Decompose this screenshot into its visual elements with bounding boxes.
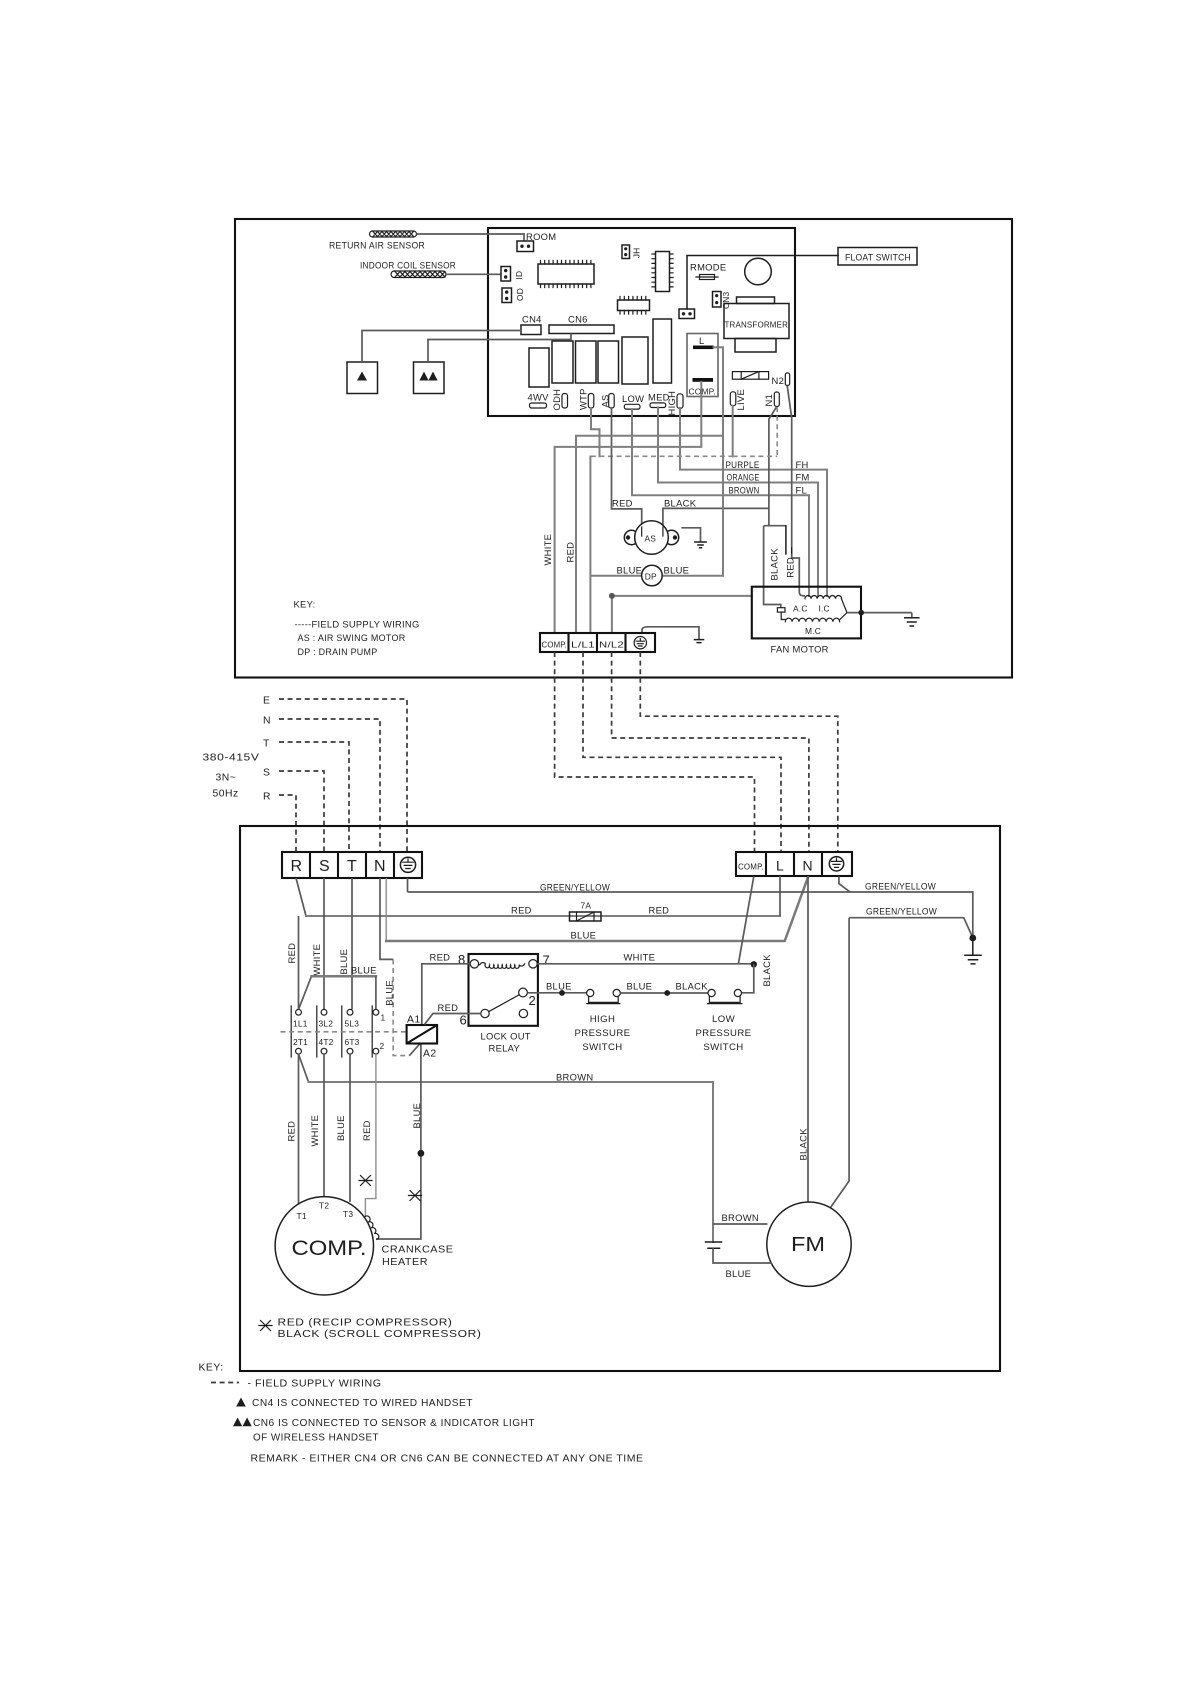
wire fan motor to ground bbox=[847, 613, 912, 618]
svg-text:RED: RED bbox=[649, 905, 670, 916]
svg-text:- FIELD SUPPLY WIRING: - FIELD SUPPLY WIRING bbox=[248, 1379, 382, 1390]
pin ODH bbox=[562, 394, 568, 409]
svg-text:RED: RED bbox=[565, 542, 576, 563]
svg-text:LOW: LOW bbox=[712, 1014, 736, 1025]
svg-text:AS: AS bbox=[645, 534, 657, 544]
pin LIVE bbox=[730, 392, 736, 406]
OD connector bbox=[502, 288, 512, 303]
svg-text:DP : DRAIN PUMP: DP : DRAIN PUMP bbox=[298, 646, 378, 657]
svg-text:3L2: 3L2 bbox=[319, 1019, 334, 1029]
dashed drain pump wire at N1 bbox=[733, 407, 778, 456]
svg-text:BLUE: BLUE bbox=[726, 1268, 752, 1279]
pin LOW bbox=[624, 404, 640, 409]
svg-text:FM: FM bbox=[791, 1234, 825, 1256]
junction node white-black bbox=[751, 961, 757, 967]
dashed BLUE wire N to contactor coil A2 bbox=[393, 959, 409, 1055]
wire N terminal down bbox=[380, 878, 393, 959]
wire slant to COMP terminal bbox=[738, 876, 754, 964]
contactor main contacts bbox=[291, 1006, 379, 1057]
svg-text:1: 1 bbox=[381, 1013, 386, 1023]
svg-text:CN4: CN4 bbox=[522, 314, 542, 325]
svg-text:L/L1: L/L1 bbox=[571, 640, 595, 650]
wire T terminal to contactor 5L3 bbox=[351, 878, 353, 1010]
low pressure switch bbox=[708, 989, 742, 1003]
svg-text:8: 8 bbox=[458, 952, 465, 967]
wire drain pump left BLUE to N/L2 bbox=[590, 457, 642, 634]
svg-text:KEY:: KEY: bbox=[199, 1363, 224, 1374]
svg-text:BROWN: BROWN bbox=[722, 1212, 759, 1223]
svg-text:T2: T2 bbox=[319, 1201, 329, 1211]
svg-text:BLUE: BLUE bbox=[351, 965, 377, 976]
CN4 connector bbox=[521, 325, 541, 335]
indoor coil sensor coil bbox=[391, 271, 446, 278]
fan run capacitor bbox=[706, 1242, 722, 1248]
wire S terminal to contactor 3L2 bbox=[323, 878, 325, 1010]
svg-text:BLUE: BLUE bbox=[627, 981, 653, 992]
fan motor common to MC bbox=[781, 612, 785, 619]
svg-text:FM: FM bbox=[796, 472, 810, 483]
svg-text:BLUE: BLUE bbox=[617, 565, 643, 576]
wire N2 to capacitor bbox=[787, 386, 792, 548]
fuse 7A bbox=[570, 901, 602, 922]
buzzer circle bbox=[745, 258, 772, 285]
svg-text:PURPLE: PURPLE bbox=[726, 459, 760, 470]
svg-text:HIGH: HIGH bbox=[590, 1014, 616, 1025]
CN6 connector bbox=[549, 325, 614, 334]
svg-text:DP: DP bbox=[645, 572, 657, 582]
ground symbol outdoor bbox=[965, 938, 981, 964]
svg-text:AS: AS bbox=[600, 394, 611, 407]
svg-text:GREEN/YELLOW: GREEN/YELLOW bbox=[540, 882, 610, 893]
svg-text:OD: OD bbox=[515, 288, 525, 301]
svg-text:RELAY: RELAY bbox=[489, 1043, 521, 1054]
svg-text:BLACK: BLACK bbox=[769, 548, 780, 581]
svg-text:T: T bbox=[263, 739, 270, 750]
wire AS pin to air swing motor RED bbox=[612, 408, 642, 527]
wire HIGH to fan high PURPLE bbox=[680, 408, 827, 596]
junction node heater wire bbox=[418, 1150, 425, 1157]
indoor terminal strip bbox=[540, 633, 655, 652]
junction node N/L2 bbox=[609, 593, 615, 599]
IC chip U1 bbox=[538, 261, 594, 288]
wire contactor A2 to crankcase heater BLUE bbox=[376, 1044, 421, 1240]
double triangle bullet CN6 bbox=[233, 1418, 252, 1427]
transformer bbox=[724, 297, 789, 352]
pin WTP bbox=[588, 394, 594, 409]
wired handset triangle box bbox=[347, 362, 378, 394]
dashed field wire indoor N/L2 to outdoor N bbox=[612, 652, 809, 852]
pin N1 bbox=[774, 392, 779, 407]
BLACK wire N terminal to fan motor bbox=[807, 876, 809, 1202]
junction node blue bbox=[559, 990, 565, 996]
svg-text:RED (RECIP COMPRESSOR): RED (RECIP COMPRESSOR) bbox=[278, 1318, 453, 1329]
lock out relay coil bbox=[480, 963, 525, 969]
svg-text:S: S bbox=[319, 858, 330, 875]
svg-text:CN3: CN3 bbox=[721, 292, 731, 309]
wire A2 diagonal lead bbox=[409, 1044, 419, 1056]
svg-text:6: 6 bbox=[460, 1013, 467, 1028]
return air sensor coil bbox=[370, 231, 417, 237]
svg-text:A1: A1 bbox=[407, 1015, 421, 1026]
svg-text:7: 7 bbox=[543, 953, 550, 968]
GREEN/YELLOW earth row bbox=[408, 892, 973, 938]
junction node black bbox=[664, 990, 670, 996]
dashed field wire S bbox=[279, 771, 324, 853]
svg-text:COMP.: COMP. bbox=[292, 1236, 367, 1260]
svg-text:COMP.: COMP. bbox=[542, 640, 568, 650]
svg-text:WHITE: WHITE bbox=[542, 534, 553, 566]
wire 1L1 slant to bridge bbox=[299, 976, 312, 1009]
wire R row down to contactor 1L1 bbox=[298, 916, 300, 1010]
wire PCB to float switch bbox=[687, 256, 838, 310]
earth symbol outdoor supply terminal bbox=[400, 857, 415, 872]
svg-text:WHITE: WHITE bbox=[624, 952, 656, 963]
wire capacitor to fan AC coil RED bbox=[792, 554, 805, 596]
svg-text:PRESSURE: PRESSURE bbox=[696, 1028, 752, 1039]
svg-text:RED: RED bbox=[361, 1120, 372, 1141]
svg-text:R: R bbox=[291, 858, 303, 875]
wire N1 to fan motor common bbox=[764, 407, 786, 608]
pin HIGH bbox=[677, 394, 683, 409]
svg-text:R: R bbox=[263, 792, 271, 803]
COMP relay block bbox=[687, 334, 718, 397]
wire air swing motor to N1 BLACK bbox=[663, 508, 769, 527]
contactor mechanical link dashed bbox=[281, 1031, 407, 1033]
svg-text:AS : AIR SWING MOTOR: AS : AIR SWING MOTOR bbox=[298, 632, 406, 643]
wire CN4 to wired handset box bbox=[362, 331, 521, 363]
svg-text:N2: N2 bbox=[772, 375, 785, 386]
svg-text:LOCK OUT: LOCK OUT bbox=[481, 1031, 531, 1042]
RED fuse row wire bbox=[306, 915, 780, 917]
lock out relay contact bbox=[519, 988, 528, 997]
svg-text:FAN MOTOR: FAN MOTOR bbox=[771, 644, 829, 655]
svg-text:HIGH: HIGH bbox=[666, 391, 677, 416]
svg-text:RED: RED bbox=[511, 905, 532, 916]
wire 6T3 to compressor T3 BLUE bbox=[349, 1054, 351, 1202]
svg-text:BLUE: BLUE bbox=[383, 980, 394, 1006]
second GREEN/YELLOW row from fan motor earth bbox=[849, 918, 973, 938]
svg-text:ID: ID bbox=[514, 271, 524, 280]
svg-text:CN6: CN6 bbox=[568, 314, 588, 325]
relay block fan MED-HIGH bbox=[653, 319, 672, 383]
svg-text:7A: 7A bbox=[581, 901, 592, 911]
svg-text:380-415V: 380-415V bbox=[203, 753, 260, 764]
svg-text:CN4 IS CONNECTED TO WIRED HAND: CN4 IS CONNECTED TO WIRED HANDSET bbox=[252, 1398, 473, 1409]
svg-text:50Hz: 50Hz bbox=[213, 789, 239, 800]
svg-text:RED: RED bbox=[286, 1121, 297, 1142]
svg-text:N: N bbox=[374, 858, 386, 875]
wire L terminal to fuse row bbox=[779, 876, 781, 916]
svg-text:GREEN/YELLOW: GREEN/YELLOW bbox=[866, 906, 937, 917]
2-pin connector bbox=[679, 309, 695, 319]
pin AS bbox=[609, 394, 615, 409]
wire contact 2 to crankcase heater RED bbox=[365, 1054, 376, 1216]
wire high to low pressure switch bbox=[620, 992, 708, 994]
svg-text:T1: T1 bbox=[297, 1211, 307, 1221]
svg-text:BLACK (SCROLL COMPRESSOR): BLACK (SCROLL COMPRESSOR) bbox=[278, 1329, 482, 1340]
dashed field wire E to earth terminal bbox=[279, 699, 407, 853]
svg-text:CRANKCASE: CRANKCASE bbox=[382, 1245, 454, 1256]
svg-text:FL: FL bbox=[796, 484, 808, 495]
fan motor AC-IC coil bbox=[805, 595, 842, 598]
BLUE row wire to outdoor N bbox=[386, 876, 808, 941]
ground symbol air swing bbox=[695, 542, 706, 548]
svg-text:RED: RED bbox=[785, 557, 796, 578]
svg-text:OF WIRELESS HANDSET: OF WIRELESS HANDSET bbox=[253, 1433, 379, 1444]
svg-text:RED: RED bbox=[430, 952, 451, 963]
crankcase heater coil bbox=[365, 1216, 378, 1240]
ROOM connector CN bbox=[517, 241, 534, 252]
svg-text:WTP: WTP bbox=[578, 388, 589, 410]
recip-scroll legend mark bbox=[259, 1321, 272, 1331]
fan capacitor bbox=[786, 526, 792, 554]
svg-text:RMODE: RMODE bbox=[690, 262, 726, 273]
JH connector bbox=[622, 245, 630, 259]
svg-text:BLUE: BLUE bbox=[664, 565, 690, 576]
pin 4WV bbox=[530, 403, 547, 408]
ground symbol near terminal strip bbox=[695, 640, 704, 643]
svg-text:N: N bbox=[263, 716, 271, 727]
wire MED to fan med ORANGE bbox=[658, 408, 818, 597]
svg-text:6T3: 6T3 bbox=[345, 1037, 360, 1047]
svg-text:L: L bbox=[776, 858, 784, 874]
drain pump DP bbox=[642, 565, 663, 586]
wire AS to ground bbox=[681, 528, 700, 542]
IC chip U3 bbox=[618, 297, 650, 315]
svg-text:LIVE: LIVE bbox=[735, 389, 746, 411]
air swing motor AS bbox=[624, 521, 678, 555]
PCB relay contact symbol bbox=[732, 372, 768, 380]
dashed field wire indoor COMP to outdoor COMP bbox=[555, 652, 755, 852]
ground symbol fan motor bbox=[905, 618, 919, 626]
svg-text:RED: RED bbox=[438, 1002, 459, 1013]
svg-text:BLUE: BLUE bbox=[338, 949, 349, 975]
relay block WTP bbox=[576, 341, 597, 383]
fan motor common terminal bbox=[777, 608, 785, 612]
triangle bullet CN4 bbox=[236, 1398, 246, 1407]
svg-text:T3: T3 bbox=[343, 1209, 353, 1219]
dashed field wire WTP to LIVE bbox=[591, 455, 733, 457]
relay block AS bbox=[598, 341, 619, 383]
svg-text:S: S bbox=[263, 768, 270, 779]
WHITE wire lock out pin 7 to COMP terminal bbox=[537, 963, 754, 965]
junction fan motor edge bbox=[858, 610, 864, 616]
svg-text:2T1: 2T1 bbox=[293, 1037, 308, 1047]
float switch box bbox=[838, 248, 917, 266]
wire lock out pin 2 to high pressure switch BLUE bbox=[527, 992, 586, 994]
svg-text:RED: RED bbox=[612, 498, 633, 509]
wireless handset triangle box bbox=[414, 362, 445, 394]
contactor coil box A1 A2 bbox=[407, 1025, 438, 1044]
svg-text:COMP.: COMP. bbox=[738, 862, 764, 872]
svg-text:M.C: M.C bbox=[805, 626, 821, 636]
BROWN row to fan capacitor bbox=[309, 1082, 714, 1242]
wire WTP drain pump jog bbox=[591, 408, 600, 456]
earth symbol indoor terminal bbox=[634, 637, 646, 649]
key dashes symbol bbox=[211, 1382, 239, 1384]
svg-text:SWITCH: SWITCH bbox=[582, 1042, 622, 1053]
dashed field wire N bbox=[279, 719, 380, 853]
wire 2T1 slant to BROWN row bbox=[299, 1054, 309, 1082]
svg-text:A2: A2 bbox=[423, 1049, 437, 1060]
dashed field wire indoor earth to outdoor earth bbox=[640, 652, 838, 852]
wire fan motor earth down bbox=[829, 918, 849, 1209]
svg-text:I.C: I.C bbox=[819, 603, 830, 613]
RED wire to lock out pin 6 bbox=[425, 1014, 481, 1025]
svg-text:FH: FH bbox=[796, 459, 809, 470]
svg-text:BROWN: BROWN bbox=[729, 484, 760, 495]
wire earth terminal curve to ground bbox=[642, 627, 699, 640]
svg-text:TRANSFORMER: TRANSFORMER bbox=[725, 320, 789, 330]
svg-text:ROOM: ROOM bbox=[526, 231, 556, 242]
wire COMP relay to COMP terminal WHITE bbox=[555, 382, 702, 633]
fan motor FM bbox=[767, 1202, 851, 1286]
outdoor supply terminal strip R S T N E bbox=[282, 852, 422, 878]
BLUE bridge row to contact 1 bbox=[312, 975, 376, 978]
pin N2 bbox=[785, 373, 789, 386]
wire CN6 to wireless handset box bbox=[428, 334, 571, 363]
svg-text:JH: JH bbox=[632, 248, 642, 259]
svg-text:3N~: 3N~ bbox=[216, 773, 237, 784]
wire COMP relay L to terminal RED bbox=[662, 347, 723, 576]
dashed field wire T bbox=[279, 742, 349, 853]
svg-text:BLACK: BLACK bbox=[664, 498, 697, 509]
svg-text:RED: RED bbox=[286, 943, 297, 964]
svg-text:FLOAT SWITCH: FLOAT SWITCH bbox=[845, 252, 911, 263]
relay block ODH bbox=[552, 341, 573, 383]
svg-text:PRESSURE: PRESSURE bbox=[575, 1028, 631, 1039]
wire N terminal to BLUE row bbox=[385, 878, 387, 941]
svg-text:-----FIELD SUPPLY WIRING: -----FIELD SUPPLY WIRING bbox=[295, 619, 420, 630]
svg-text:WHITE: WHITE bbox=[311, 944, 322, 976]
fan motor box bbox=[752, 587, 861, 639]
svg-text:BLUE: BLUE bbox=[571, 930, 597, 941]
ID connector bbox=[501, 267, 511, 282]
wire R terminal slant to fuse row bbox=[296, 878, 306, 916]
dashed field wire indoor L/L1 to outdoor L bbox=[583, 652, 781, 852]
svg-text:GREEN/YELLOW: GREEN/YELLOW bbox=[865, 881, 936, 892]
relay block fan LOW bbox=[622, 337, 648, 384]
wire 4T2 to compressor T2 WHITE bbox=[323, 1054, 325, 1197]
high pressure switch bbox=[587, 989, 621, 1003]
dashed field wire R bbox=[279, 795, 296, 853]
svg-text:4T2: 4T2 bbox=[319, 1037, 334, 1047]
svg-text:E: E bbox=[263, 696, 270, 707]
relay block 4WV bbox=[529, 348, 549, 387]
indoor unit enclosure box bbox=[235, 219, 1012, 678]
svg-text:INDOOR COIL SENSOR: INDOOR COIL SENSOR bbox=[360, 259, 456, 270]
wire branch to L/L1 terminal bbox=[576, 436, 723, 633]
recip-scroll mark heater top bbox=[359, 1176, 372, 1186]
svg-text:2: 2 bbox=[529, 993, 536, 1008]
svg-text:T: T bbox=[347, 858, 357, 875]
svg-text:BLUE: BLUE bbox=[411, 1103, 422, 1129]
CN3 connector bbox=[713, 292, 722, 308]
svg-text:ODH: ODH bbox=[551, 389, 562, 411]
IC chip U2 vertical bbox=[652, 252, 673, 292]
recip-scroll mark heater bottom bbox=[409, 1191, 422, 1201]
svg-text:BROWN: BROWN bbox=[556, 1072, 593, 1083]
svg-text:LOW: LOW bbox=[622, 393, 644, 404]
BLUE wire capacitor to fan motor bbox=[713, 1248, 772, 1263]
svg-text:L: L bbox=[699, 335, 705, 346]
svg-text:N1: N1 bbox=[763, 394, 774, 407]
svg-text:BLUE: BLUE bbox=[546, 981, 572, 992]
wire outdoor earth terminal slant bbox=[839, 876, 850, 892]
svg-text:5L3: 5L3 bbox=[345, 1019, 360, 1029]
svg-text:BLACK: BLACK bbox=[676, 981, 709, 992]
RED wire to lock out pin 8 bbox=[422, 964, 470, 1025]
svg-text:4WV: 4WV bbox=[528, 392, 550, 403]
svg-text:BLUE: BLUE bbox=[335, 1115, 346, 1141]
svg-text:ORANGE: ORANGE bbox=[727, 472, 760, 483]
wire LIVE pin down bbox=[732, 406, 734, 457]
svg-text:CN6 IS CONNECTED TO SENSOR & I: CN6 IS CONNECTED TO SENSOR & INDICATOR L… bbox=[253, 1418, 535, 1429]
svg-text:N: N bbox=[803, 858, 813, 874]
wire LOW to fan low BROWN bbox=[632, 409, 809, 596]
BLACK wire down to low pressure switch bbox=[742, 964, 754, 993]
lock out relay box bbox=[469, 954, 538, 1026]
svg-text:REMARK - EITHER CN4 OR CN6 CAN: REMARK - EITHER CN4 OR CN6 CAN BE CONNEC… bbox=[251, 1454, 644, 1465]
outdoor load terminal strip bbox=[736, 852, 852, 876]
svg-text:1L1: 1L1 bbox=[293, 1019, 308, 1029]
earth symbol outdoor load terminal bbox=[829, 857, 843, 871]
wire return air sensor to ROOM connector bbox=[417, 234, 525, 241]
svg-text:HEATER: HEATER bbox=[382, 1257, 428, 1268]
earth junction node bbox=[969, 935, 976, 942]
svg-text:2: 2 bbox=[380, 1041, 385, 1051]
fan coil ends join bbox=[840, 599, 847, 620]
BROWN wire to fan motor bbox=[713, 1223, 768, 1225]
svg-text:SWITCH: SWITCH bbox=[703, 1042, 743, 1053]
wire earth terminal down bbox=[407, 878, 409, 892]
wire 2T1 to compressor T1 RED bbox=[298, 1054, 300, 1204]
svg-text:BLACK: BLACK bbox=[798, 1128, 809, 1161]
outdoor unit enclosure box bbox=[240, 826, 1000, 1371]
svg-text:BLACK: BLACK bbox=[761, 954, 772, 987]
svg-text:A.C: A.C bbox=[793, 603, 808, 613]
compressor motor COMP bbox=[275, 1197, 373, 1295]
RMODE jumper bbox=[696, 275, 718, 280]
wire N/L2 to fan motor bbox=[612, 596, 752, 633]
wire indoor coil sensor to ID connector bbox=[446, 273, 501, 275]
svg-text:WHITE: WHITE bbox=[309, 1115, 320, 1147]
PCB outline bbox=[488, 228, 795, 416]
fan motor MC coil bbox=[785, 618, 839, 622]
lock out relay coil terminals bbox=[470, 960, 478, 968]
pin MED bbox=[650, 403, 666, 408]
svg-text:KEY:: KEY: bbox=[294, 599, 316, 610]
svg-text:N/L2: N/L2 bbox=[599, 640, 624, 650]
wire bridge down to contact 1 bbox=[375, 976, 377, 1009]
svg-text:RETURN AIR SENSOR: RETURN AIR SENSOR bbox=[329, 240, 425, 251]
